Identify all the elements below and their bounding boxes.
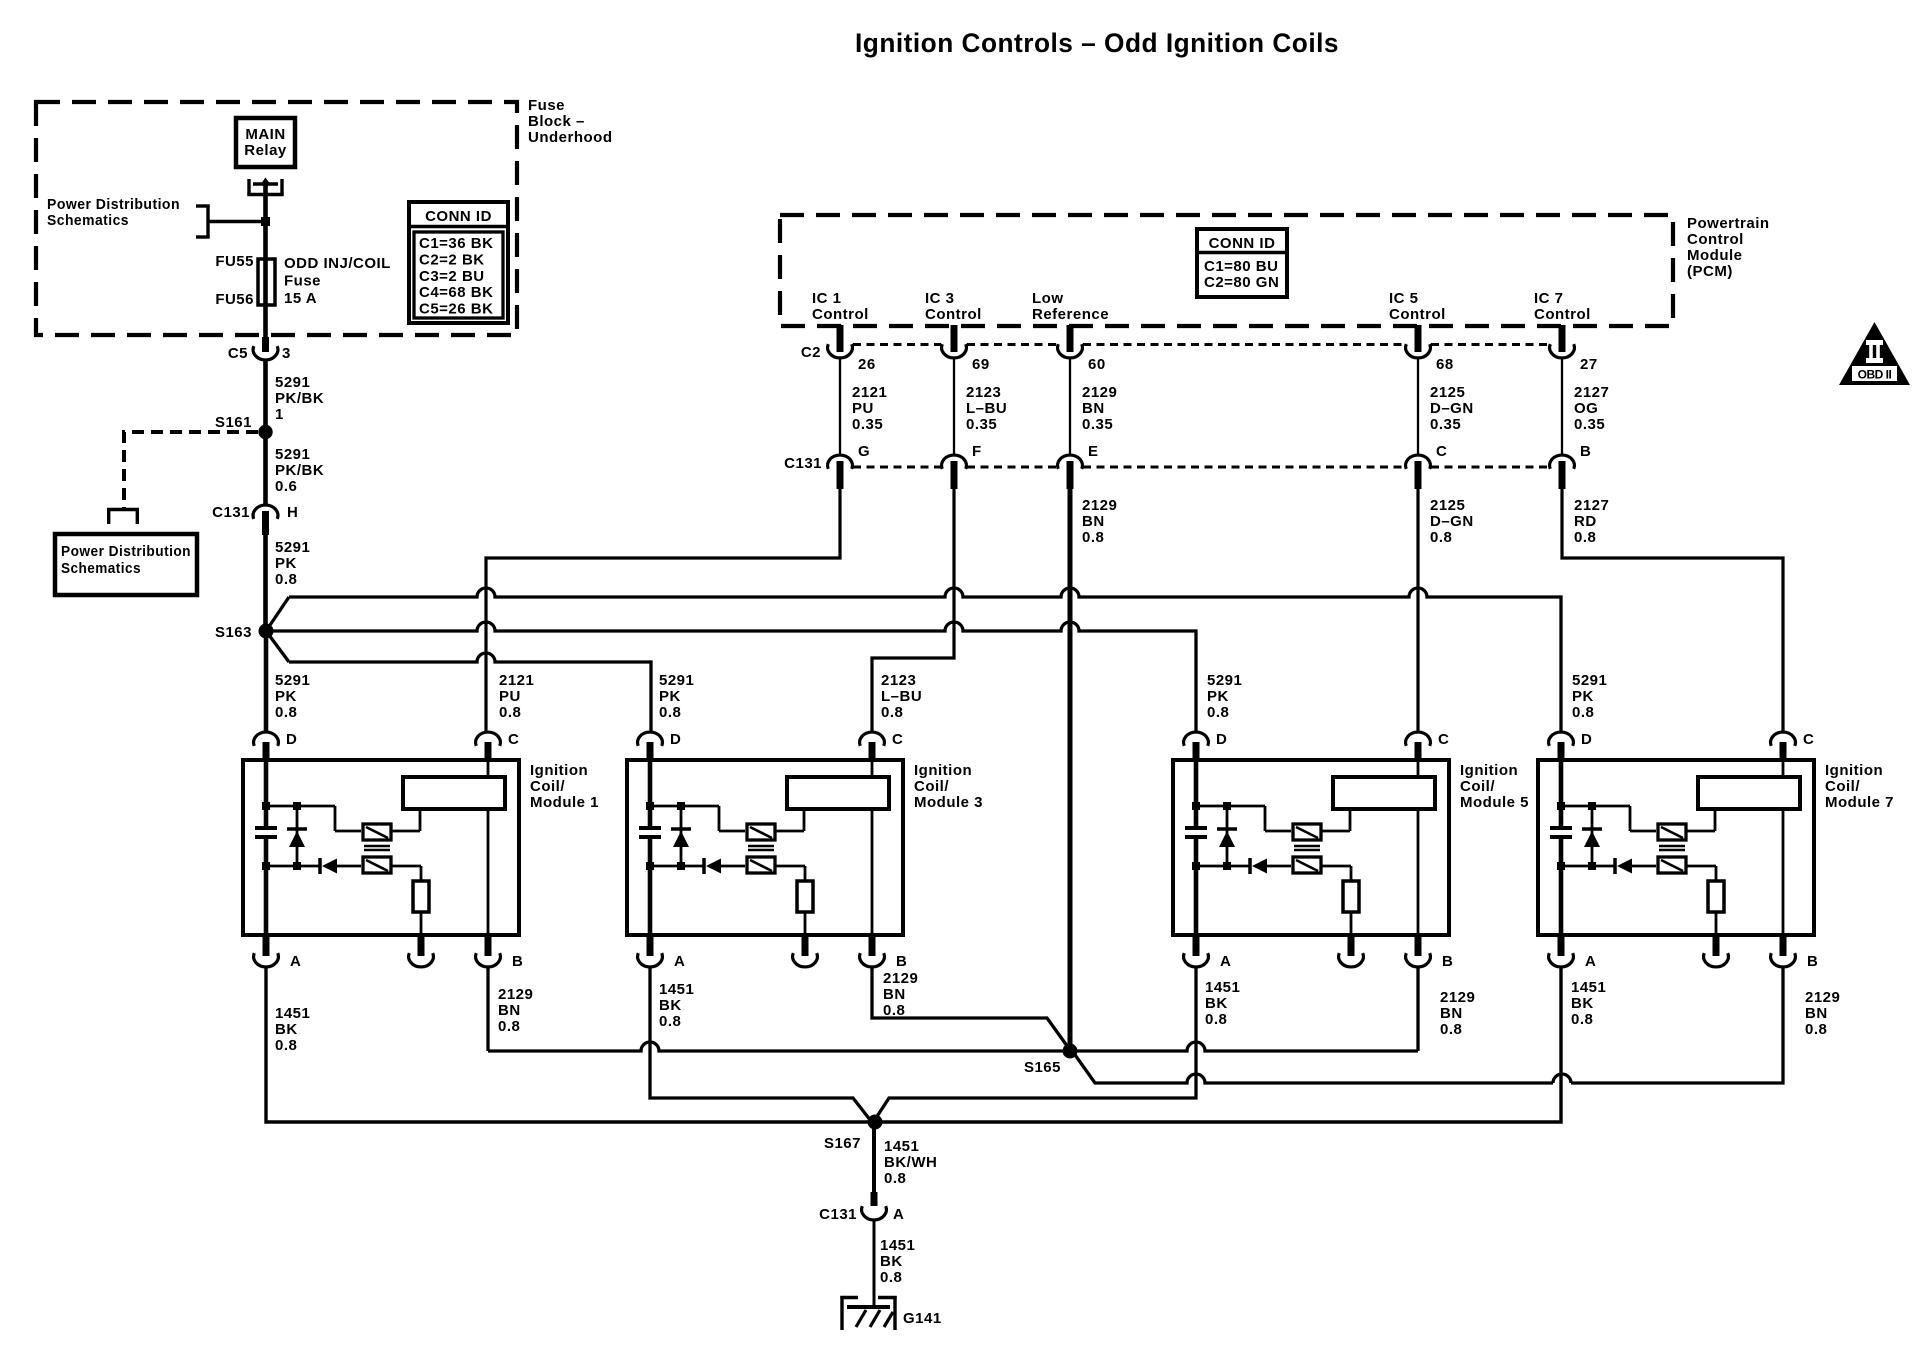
- svg-text:Fuse: Fuse: [528, 97, 565, 114]
- wire S165 to module 7 B: [1073, 967, 1840, 1083]
- svg-text:Schematics: Schematics: [61, 560, 141, 577]
- connector C2 pin 69: [942, 325, 990, 373]
- connector pin C module 5: [1406, 731, 1450, 762]
- svg-text:Powertrain: Powertrain: [1687, 215, 1770, 232]
- connector C2 pin 68: [1406, 325, 1454, 373]
- wire 2127 OG 0.35: [1562, 358, 1609, 455]
- svg-text:A: A: [1585, 953, 1596, 970]
- ignition coil winding module 7: [1698, 777, 1800, 809]
- ignition coil winding module 3: [787, 777, 889, 809]
- svg-text:(PCM): (PCM): [1687, 263, 1733, 280]
- svg-text:60: 60: [1088, 356, 1106, 373]
- svg-text:0.8: 0.8: [1207, 704, 1229, 721]
- capacitor module 1: [255, 828, 277, 837]
- svg-text:PK: PK: [1572, 688, 1594, 705]
- wire module 1 pin C internal: [487, 760, 490, 935]
- svg-text:2121: 2121: [852, 384, 887, 401]
- splice S163: [215, 624, 274, 642]
- svg-text:OBD II: OBD II: [1858, 368, 1892, 382]
- wire module 3 pin C internal: [871, 760, 874, 935]
- wire S163 to module 5 D (5291 PK): [273, 622, 1196, 732]
- ignition coil module 7 box: [1538, 760, 1894, 935]
- svg-text:Ignition: Ignition: [1460, 762, 1518, 779]
- wire module 7 bottom branch: [1561, 865, 1614, 868]
- svg-text:Coil/: Coil/: [1460, 778, 1495, 795]
- svg-text:IC 3: IC 3: [925, 290, 955, 307]
- svg-text:68: 68: [1436, 356, 1454, 373]
- svg-text:Coil/: Coil/: [1825, 778, 1860, 795]
- svg-text:Ignition: Ignition: [530, 762, 588, 779]
- driver isolation bars module 7: [1659, 846, 1685, 850]
- svg-text:1451: 1451: [1571, 979, 1606, 996]
- svg-text:D–GN: D–GN: [1430, 400, 1474, 417]
- svg-text:0.8: 0.8: [1571, 1011, 1593, 1028]
- wire coil tap module 1: [391, 811, 420, 831]
- connector pin D module 1: [254, 731, 298, 762]
- svg-text:Block –: Block –: [528, 113, 585, 130]
- svg-text:C3=2 BU: C3=2 BU: [419, 268, 485, 285]
- svg-text:5291: 5291: [275, 672, 310, 689]
- svg-text:BK: BK: [275, 1021, 298, 1038]
- svg-text:S161: S161: [215, 414, 252, 431]
- connector C131 pin G: [828, 443, 871, 489]
- wire 1451 BK 0.8 to ground: [874, 1220, 915, 1307]
- svg-text:BN: BN: [1082, 400, 1105, 417]
- svg-text:Control: Control: [925, 306, 982, 323]
- wire module 1 bottom branch: [266, 865, 319, 868]
- svg-text:A: A: [674, 953, 685, 970]
- wire module 1 top branch: [266, 806, 361, 831]
- capacitor module 7: [1550, 828, 1572, 837]
- svg-text:A: A: [1220, 953, 1231, 970]
- wire resistor to middle pin module 5: [1350, 912, 1353, 935]
- label Fuse Block Underhood: [528, 97, 613, 146]
- svg-text:1451: 1451: [880, 1237, 915, 1254]
- node module 7 top junction: [1557, 802, 1596, 810]
- connector pin D module 3: [638, 731, 682, 762]
- connector pin C module 1: [476, 731, 520, 762]
- svg-text:27: 27: [1580, 356, 1598, 373]
- wire 1451 BK 0.8 module 3 A to S167: [650, 967, 871, 1121]
- svg-text:2129: 2129: [1805, 989, 1840, 1006]
- ignition coil module 3 box: [627, 760, 983, 935]
- connector C2 pin 60: [1058, 325, 1106, 373]
- wire S165 to module 5 B: [1418, 967, 1475, 1051]
- connector C131 pin H: [212, 504, 298, 535]
- driver isolation bars module 1: [364, 846, 390, 850]
- wire coil tap module 3: [775, 811, 804, 831]
- svg-text:Fuse: Fuse: [284, 273, 321, 290]
- svg-text:IC 1: IC 1: [812, 290, 842, 307]
- svg-text:C1=80 BU: C1=80 BU: [1204, 258, 1278, 275]
- svg-text:C: C: [508, 731, 519, 748]
- wire module 7 pin D internal: [1559, 760, 1564, 935]
- svg-text:Module: Module: [1687, 247, 1743, 264]
- wire 5291 PK 0.8 (C131H to S163): [266, 535, 311, 631]
- svg-text:Module 3: Module 3: [914, 794, 983, 811]
- svg-text:0.8: 0.8: [1205, 1011, 1227, 1028]
- connector C131 pin C: [1406, 443, 1448, 489]
- svg-text:0.8: 0.8: [1572, 704, 1594, 721]
- svg-text:Coil/: Coil/: [914, 778, 949, 795]
- label IC 7 Control: [1534, 290, 1591, 323]
- wire 2125 D&#8211;GN 0.35: [1418, 358, 1474, 455]
- wire resistor to middle pin module 3: [804, 912, 807, 935]
- wire driver 2 to resistor module 1: [391, 866, 421, 881]
- diagram title: [855, 28, 1339, 58]
- svg-text:Module 7: Module 7: [1825, 794, 1894, 811]
- svg-text:C131: C131: [212, 504, 250, 521]
- svg-text:D: D: [286, 731, 297, 748]
- svg-text:BK: BK: [1571, 995, 1594, 1012]
- wire 2127 RD 0.8 (C131 B to module 7 C): [1562, 489, 1783, 732]
- zener diode module 5: [1217, 806, 1237, 866]
- svg-text:0.8: 0.8: [659, 704, 681, 721]
- svg-text:Power Distribution: Power Distribution: [47, 196, 180, 213]
- svg-text:A: A: [290, 953, 301, 970]
- svg-text:C1=36 BK: C1=36 BK: [419, 235, 493, 252]
- driver stage 2 module 1: [363, 857, 391, 873]
- wire 2121 PU 0.8 (C131 G to module 1 C): [486, 489, 840, 732]
- svg-text:1451: 1451: [659, 981, 694, 998]
- svg-text:0.35: 0.35: [1430, 416, 1461, 433]
- svg-text:2123: 2123: [966, 384, 1001, 401]
- wire ground bus S167 to module 7 A: [875, 967, 1606, 1122]
- svg-text:2125: 2125: [1430, 497, 1465, 514]
- svg-text:2129: 2129: [1082, 497, 1117, 514]
- svg-text:C131: C131: [819, 1206, 857, 1223]
- svg-text:5291: 5291: [1207, 672, 1242, 689]
- wire driver 2 to resistor module 7: [1686, 866, 1716, 881]
- svg-text:MAIN: MAIN: [245, 126, 285, 143]
- svg-text:Control: Control: [1389, 306, 1446, 323]
- node module 7 bottom junction: [1557, 862, 1596, 870]
- wire relay to tap junction: [263, 184, 268, 258]
- resistor module 1: [413, 881, 429, 912]
- svg-text:L–BU: L–BU: [881, 688, 922, 705]
- svg-text:2129: 2129: [498, 986, 533, 1003]
- label IC 3 Control: [925, 290, 982, 323]
- wire module 7 top branch: [1561, 806, 1656, 831]
- dashed wire S161 to power distribution: [107, 432, 258, 524]
- svg-text:D–GN: D–GN: [1430, 513, 1474, 530]
- label IC 5 Control: [1389, 290, 1446, 323]
- svg-text:C4=68 BK: C4=68 BK: [419, 284, 493, 301]
- svg-text:CONN ID: CONN ID: [1209, 235, 1276, 252]
- svg-text:1451: 1451: [884, 1138, 919, 1155]
- label 5291 PK 0.8 (module 7): [1572, 672, 1607, 721]
- svg-text:2129: 2129: [883, 970, 918, 987]
- wire S163 fan to module 3 D (5291 PK): [266, 631, 651, 732]
- CONN ID table (PCM): [1195, 229, 1289, 297]
- svg-text:2125: 2125: [1430, 384, 1465, 401]
- wire 2129 BN 0.8 (C131 E low reference bus): [1070, 489, 1117, 1051]
- svg-text:1: 1: [275, 406, 284, 423]
- diode module 7: [1615, 858, 1656, 874]
- svg-text:Underhood: Underhood: [528, 129, 613, 146]
- svg-text:PU: PU: [852, 400, 874, 417]
- svg-text:Schematics: Schematics: [47, 212, 129, 229]
- svg-text:OG: OG: [1574, 400, 1598, 417]
- connector pin A module 3: [638, 935, 686, 970]
- svg-text:PU: PU: [499, 688, 521, 705]
- svg-text:BN: BN: [1082, 513, 1105, 530]
- svg-text:2127: 2127: [1574, 497, 1609, 514]
- svg-text:BN: BN: [1805, 1005, 1828, 1022]
- svg-text:S167: S167: [824, 1135, 861, 1152]
- relay contact bracket: [247, 178, 283, 195]
- capacitor module 5: [1185, 828, 1207, 837]
- svg-text:5291: 5291: [275, 539, 310, 556]
- svg-text:B: B: [512, 953, 523, 970]
- svg-text:FU56: FU56: [215, 291, 254, 308]
- connector pin B module 3: [860, 935, 908, 970]
- svg-text:2123: 2123: [881, 672, 916, 689]
- driver stage 2 module 7: [1658, 857, 1686, 873]
- svg-text:0.8: 0.8: [1574, 529, 1596, 546]
- zener diode module 3: [671, 806, 691, 866]
- svg-text:Control: Control: [812, 306, 869, 323]
- wire 2129 BN 0.8 module 1 B to S165: [488, 967, 1418, 1051]
- svg-text:C: C: [1803, 731, 1814, 748]
- svg-text:BK/WH: BK/WH: [884, 1154, 937, 1171]
- svg-text:2127: 2127: [1574, 384, 1609, 401]
- splice S161: [215, 414, 273, 439]
- wire module 5 top branch: [1196, 806, 1291, 831]
- svg-text:0.35: 0.35: [966, 416, 997, 433]
- power distribution schematics tap (top): [47, 196, 270, 237]
- diode module 1: [320, 858, 361, 874]
- driver isolation bars module 5: [1294, 846, 1320, 850]
- label 5291 PK 0.8 (module 5): [1207, 672, 1242, 721]
- svg-text:69: 69: [972, 356, 990, 373]
- svg-text:5291: 5291: [275, 374, 310, 391]
- svg-text:0.35: 0.35: [852, 416, 883, 433]
- svg-text:G141: G141: [903, 1310, 942, 1327]
- svg-text:0.8: 0.8: [1430, 529, 1452, 546]
- node module 3 bottom junction: [646, 862, 685, 870]
- svg-text:RD: RD: [1574, 513, 1597, 530]
- wire module 5 pin D internal: [1194, 760, 1199, 935]
- svg-text:S165: S165: [1024, 1059, 1061, 1076]
- connector middle pin module 1: [409, 935, 434, 967]
- connector middle pin module 5: [1339, 935, 1364, 967]
- resistor module 5: [1343, 881, 1359, 912]
- svg-text:BN: BN: [883, 986, 906, 1003]
- ignition coil module 1 box: [243, 760, 599, 935]
- connector pin B module 7: [1771, 935, 1819, 970]
- node module 1 bottom junction: [262, 862, 301, 870]
- svg-text:0.35: 0.35: [1574, 416, 1605, 433]
- svg-text:BN: BN: [1440, 1005, 1463, 1022]
- svg-text:BK: BK: [659, 997, 682, 1014]
- svg-text:1451: 1451: [275, 1005, 310, 1022]
- node module 5 top junction: [1192, 802, 1231, 810]
- svg-text:26: 26: [858, 356, 876, 373]
- svg-text:PK: PK: [1207, 688, 1229, 705]
- label IC 1 Control: [812, 290, 869, 323]
- wire module 3 bottom branch: [650, 865, 703, 868]
- connector C2 pin 26: [828, 325, 876, 373]
- driver isolation bars module 3: [748, 846, 774, 850]
- resistor module 3: [797, 881, 813, 912]
- power distribution schematics box (lower): [55, 534, 197, 595]
- splice S165: [1024, 1044, 1078, 1077]
- driver stage 1 module 5: [1293, 824, 1321, 840]
- svg-text:Low: Low: [1032, 290, 1064, 307]
- wire module 1 pin D internal: [264, 760, 269, 935]
- svg-text:G: G: [858, 443, 870, 460]
- svg-text:2129: 2129: [1440, 989, 1475, 1006]
- wire 2129 BN 0.8 module 3 B to S165: [872, 967, 1070, 1050]
- svg-text:0.8: 0.8: [275, 1037, 297, 1054]
- svg-text:15 A: 15 A: [284, 290, 317, 307]
- ignition coil winding module 1: [403, 777, 505, 809]
- wire module 5 pin C internal: [1417, 760, 1420, 935]
- svg-text:PK/BK: PK/BK: [275, 462, 324, 479]
- connector C2 row dashed line: [801, 344, 1549, 361]
- svg-text:0.8: 0.8: [1805, 1021, 1827, 1038]
- svg-text:C2: C2: [801, 344, 821, 361]
- svg-text:5291: 5291: [1572, 672, 1607, 689]
- svg-text:Relay: Relay: [244, 142, 287, 159]
- diode module 3: [704, 858, 745, 874]
- wire S163 fan to module 7 D (5291 PK): [266, 588, 1561, 732]
- connector pin B module 1: [476, 935, 524, 970]
- svg-text:CONN ID: CONN ID: [425, 208, 492, 225]
- svg-text:0.8: 0.8: [884, 1170, 906, 1187]
- svg-text:L–BU: L–BU: [966, 400, 1007, 417]
- powertrain control module dashed box: [780, 215, 1673, 326]
- driver stage 1 module 3: [747, 824, 775, 840]
- wire module 3 top branch: [650, 806, 745, 831]
- label Powertrain Control Module (PCM): [1687, 215, 1770, 280]
- driver stage 2 module 3: [747, 857, 775, 873]
- svg-text:2129: 2129: [1082, 384, 1117, 401]
- fuse FU55/FU56 ODD INJ/COIL 15A: [215, 253, 391, 337]
- wire 2121 PU 0.35: [840, 358, 887, 455]
- zener diode module 1: [287, 806, 307, 866]
- wire driver 2 to resistor module 5: [1321, 866, 1351, 881]
- svg-text:0.8: 0.8: [659, 1013, 681, 1030]
- wire resistor to middle pin module 1: [420, 912, 423, 935]
- svg-text:0.8: 0.8: [880, 1269, 902, 1286]
- svg-text:D: D: [670, 731, 681, 748]
- connector pin D module 7: [1549, 731, 1593, 762]
- svg-text:B: B: [1807, 953, 1818, 970]
- svg-text:0.8: 0.8: [275, 704, 297, 721]
- node module 1 top junction: [262, 802, 301, 810]
- svg-text:Module 1: Module 1: [530, 794, 599, 811]
- svg-text:3: 3: [282, 345, 291, 362]
- svg-text:0.35: 0.35: [1082, 416, 1113, 433]
- connector middle pin module 7: [1704, 935, 1729, 967]
- svg-text:C5: C5: [228, 345, 248, 362]
- svg-text:Coil/: Coil/: [530, 778, 565, 795]
- svg-text:C: C: [1438, 731, 1449, 748]
- label 5291 PK 0.8 (module 3): [659, 672, 694, 721]
- svg-text:E: E: [1088, 443, 1099, 460]
- label Low Reference: [1032, 290, 1109, 323]
- svg-text:H: H: [287, 504, 298, 521]
- fuse block underhood dashed box: [36, 102, 517, 335]
- svg-text:PK: PK: [275, 688, 297, 705]
- svg-text:0.8: 0.8: [275, 571, 297, 588]
- diode module 5: [1250, 858, 1291, 874]
- svg-text:C: C: [892, 731, 903, 748]
- svg-text:FU55: FU55: [215, 253, 254, 270]
- svg-text:ODD INJ/COIL: ODD INJ/COIL: [284, 255, 391, 272]
- wire 2129 BN 0.35: [1070, 358, 1117, 455]
- svg-text:IC 7: IC 7: [1534, 290, 1564, 307]
- zener diode module 7: [1582, 806, 1602, 866]
- wire 2123 L-BU 0.8 (C131 F to module 3 C): [872, 489, 954, 732]
- svg-text:Module 5: Module 5: [1460, 794, 1529, 811]
- svg-text:0.8: 0.8: [1440, 1021, 1462, 1038]
- connector pin C module 7: [1771, 731, 1815, 762]
- svg-text:C131: C131: [784, 455, 822, 472]
- wire coil tap module 7: [1686, 811, 1715, 831]
- svg-text:PK: PK: [659, 688, 681, 705]
- svg-text:IC 5: IC 5: [1389, 290, 1419, 307]
- svg-text:C2=80 GN: C2=80 GN: [1204, 274, 1279, 291]
- svg-text:Reference: Reference: [1032, 306, 1109, 323]
- connector pin A module 5: [1184, 935, 1232, 970]
- svg-text:C2=2 BK: C2=2 BK: [419, 251, 485, 268]
- splice S167: [824, 1115, 883, 1153]
- capacitor module 3: [639, 828, 661, 837]
- svg-text:0.8: 0.8: [881, 704, 903, 721]
- connector pin A module 7: [1549, 935, 1597, 970]
- node module 3 top junction: [646, 802, 685, 810]
- svg-text:Control: Control: [1687, 231, 1744, 248]
- svg-text:D: D: [1581, 731, 1592, 748]
- wire 5291 PK/BK 0.6: [266, 432, 325, 505]
- wire driver 2 to resistor module 3: [775, 866, 805, 881]
- driver stage 1 module 7: [1658, 824, 1686, 840]
- label 2123 L-BU 0.8: [881, 672, 922, 721]
- svg-text:1451: 1451: [1205, 979, 1240, 996]
- svg-text:5291: 5291: [275, 446, 310, 463]
- OBD II symbol: [1839, 322, 1910, 385]
- svg-text:0.8: 0.8: [498, 1018, 520, 1035]
- svg-text:F: F: [972, 443, 982, 460]
- svg-text:D: D: [1216, 731, 1227, 748]
- svg-text:PK/BK: PK/BK: [275, 390, 324, 407]
- wire module 5 bottom branch: [1196, 865, 1249, 868]
- svg-text:Ignition: Ignition: [914, 762, 972, 779]
- connector C131 pin F: [942, 443, 982, 489]
- ignition coil winding module 5: [1333, 777, 1435, 809]
- wire coil tap module 5: [1321, 811, 1350, 831]
- driver stage 1 module 1: [363, 824, 391, 840]
- svg-text:0.8: 0.8: [883, 1002, 905, 1019]
- svg-text:C5=26 BK: C5=26 BK: [419, 301, 493, 318]
- connector C2 pin 27: [1550, 325, 1598, 373]
- wire 1451 BK 0.8 module 5 A to S167: [874, 967, 1240, 1121]
- driver stage 2 module 5: [1293, 857, 1321, 873]
- wire 1451 BK/WH 0.8 S167 to C131 A: [874, 1122, 937, 1198]
- connector C131 pin A: [819, 1192, 904, 1223]
- svg-text:Ignition: Ignition: [1825, 762, 1883, 779]
- svg-text:2121: 2121: [499, 672, 534, 689]
- svg-text:S163: S163: [215, 624, 252, 641]
- svg-text:0.8: 0.8: [1082, 529, 1104, 546]
- wire module 3 pin D internal: [648, 760, 653, 935]
- node module 5 bottom junction: [1192, 862, 1231, 870]
- connector C131 pin B: [1550, 443, 1592, 489]
- svg-text:BN: BN: [498, 1002, 521, 1019]
